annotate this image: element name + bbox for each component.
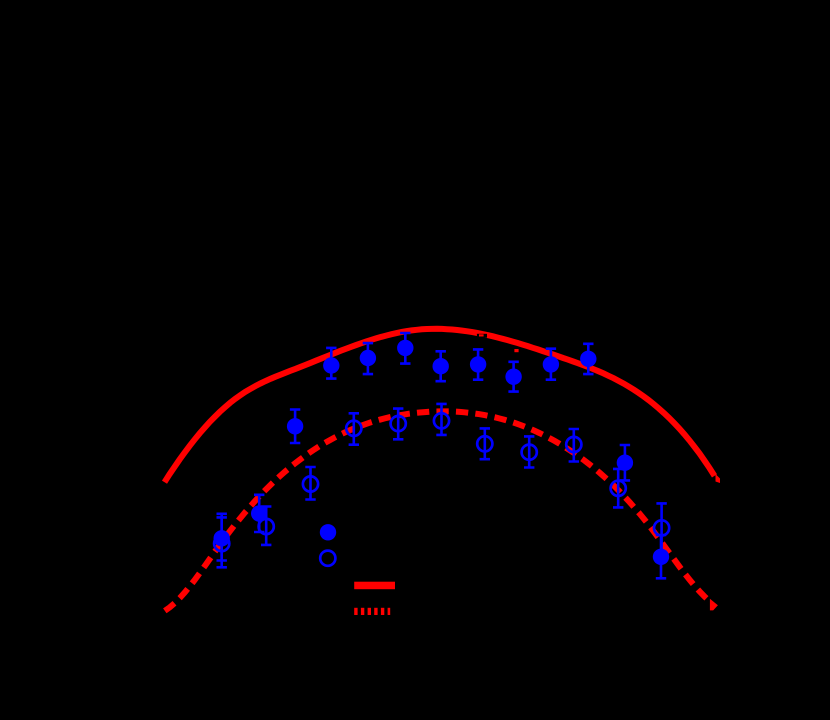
filled-circle point F10 error bar — [546, 349, 556, 380]
open-circle point O4 error bar — [349, 413, 359, 444]
filled-circle point F4 marker — [323, 357, 339, 373]
legend filled-circle marker — [320, 524, 336, 540]
open-circle point O8 marker — [522, 445, 537, 460]
open-circle point O2 error bar — [261, 507, 271, 545]
open-circle point O6 error bar — [436, 404, 446, 435]
filled-circle point F3 error bar — [290, 410, 300, 444]
legend dashed red line — [354, 608, 357, 615]
open-circle point O6 marker — [434, 413, 449, 428]
filled-circle point F13 marker — [653, 549, 669, 565]
open-circle point O1 error bar — [217, 517, 227, 567]
open-circle point O10 marker — [611, 481, 626, 496]
legend solid red line — [354, 582, 395, 590]
filled-circle point F2 error bar — [254, 495, 264, 532]
legend open-circle marker — [320, 551, 335, 566]
filled-circle point F10 marker — [543, 356, 559, 372]
solid red model curve — [165, 329, 715, 482]
filled-circle point F8 marker — [470, 356, 486, 372]
open-circle point O4 marker — [346, 421, 361, 436]
filled-circle point F1 marker — [214, 530, 230, 546]
open-circle point O7 marker — [477, 436, 492, 451]
open-circle point O1 marker — [214, 536, 229, 551]
filled-circle point F9 error bar — [508, 362, 518, 392]
filled-circle point F5 error bar — [363, 343, 373, 374]
red fleck above filled point 9 — [514, 349, 518, 352]
filled-circle point F11 marker — [580, 351, 596, 367]
filled-circle point F1 error bar — [217, 514, 227, 561]
solid curve end piece beyond frame — [716, 474, 721, 483]
open-circle point O3 marker — [303, 476, 318, 491]
open-circle point O5 error bar — [393, 409, 403, 440]
open-circle point O10 error bar — [613, 469, 623, 508]
dashed red model curve — [165, 411, 710, 610]
filled-circle point F11 error bar — [583, 344, 593, 374]
filled-circle point F9 marker — [505, 369, 521, 385]
open-circle point O11 marker — [654, 520, 669, 535]
open-circle point O5 marker — [391, 416, 406, 431]
open-circle point O2 marker — [259, 519, 274, 534]
open-circle point O9 marker — [566, 437, 581, 452]
filled-circle point F2 marker — [251, 505, 267, 521]
filled-circle point F5 marker — [360, 350, 376, 366]
filled-circle point F6 marker — [397, 340, 413, 356]
open-circle point O9 error bar — [569, 429, 579, 462]
filled-circle point F6 error bar — [400, 333, 410, 364]
notch overlay on solid curve — [477, 334, 487, 338]
open-circle point O11 error bar — [656, 503, 666, 552]
filled-circle point F8 error bar — [473, 349, 483, 379]
filled-circle point F7 marker — [433, 358, 449, 374]
open-circle point O3 error bar — [305, 467, 315, 500]
filled-circle point F12 error bar — [620, 445, 630, 480]
filled-circle point F12 marker — [617, 455, 633, 471]
open-circle point O8 error bar — [524, 436, 534, 467]
open-circle point O7 error bar — [480, 428, 490, 459]
filled-circle point F4 error bar — [326, 348, 336, 379]
filled-circle point F3 marker — [287, 418, 303, 434]
dashed curve end cap triangle — [710, 599, 718, 611]
filled-circle point F7 error bar — [436, 351, 446, 381]
filled-circle point F13 error bar — [656, 535, 666, 578]
